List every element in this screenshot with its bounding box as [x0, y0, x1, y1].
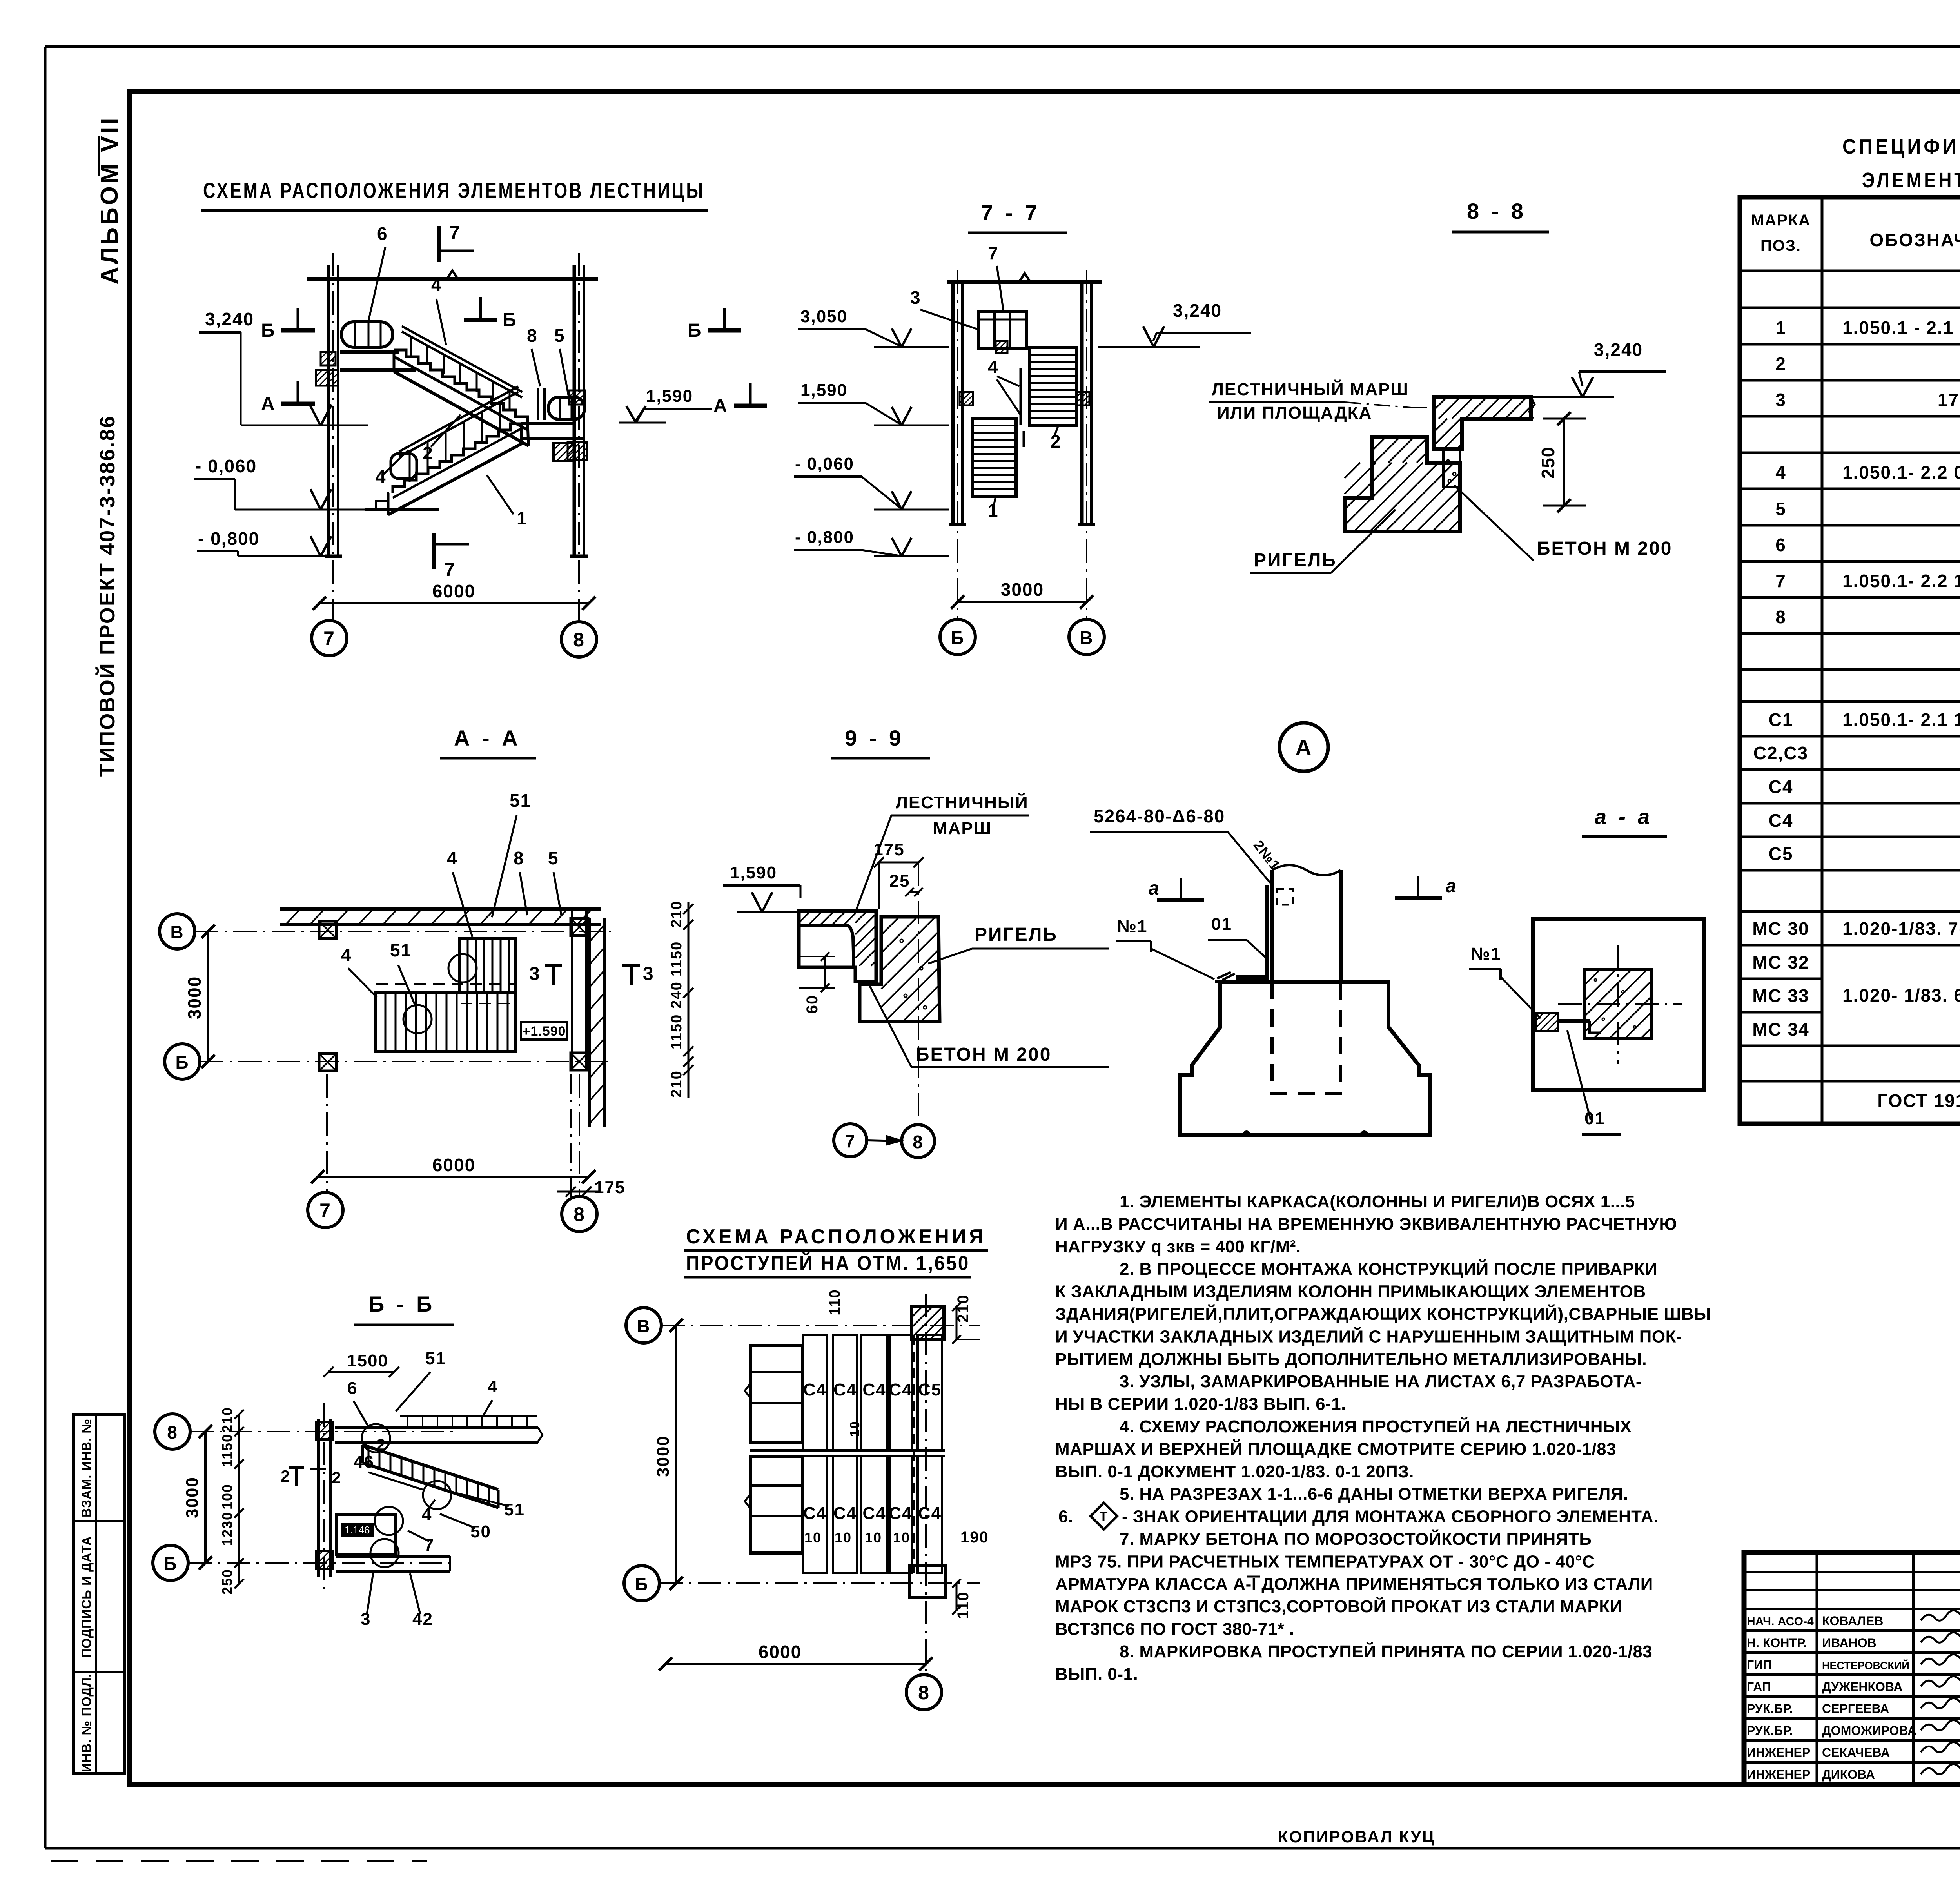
svg-text:250: 250: [219, 1569, 235, 1595]
svg-text:3: 3: [910, 287, 921, 308]
svg-text:МРЗ 75. ПРИ РАСЧЕТНЫХ ТЕМПЕР: МРЗ 75. ПРИ РАСЧЕТНЫХ ТЕМПЕРАТУРАХ ОТ - …: [1055, 1552, 1595, 1571]
svg-text:1.050.1- 2.1 18.0.00.0: 1.050.1- 2.1 18.0.00.0: [1842, 709, 1960, 730]
svg-text:9 - 9: 9 - 9: [845, 726, 904, 750]
svg-text:8: 8: [573, 629, 585, 651]
svg-text:МАРОК СТ3СП3 И СТ3ПС3,СОРТОВОЙ: МАРОК СТ3СП3 И СТ3ПС3,СОРТОВОЙ ПРОКАТ ИЗ…: [1055, 1596, 1622, 1616]
svg-text:ГАП: ГАП: [1747, 1680, 1771, 1694]
svg-text:СЕКАЧЕВА: СЕКАЧЕВА: [1822, 1746, 1890, 1760]
svg-text:РУК.БР.: РУК.БР.: [1747, 1724, 1793, 1738]
svg-text:01: 01: [1211, 915, 1232, 934]
svg-text:25: 25: [889, 871, 910, 891]
svg-text:2: 2: [1775, 354, 1786, 374]
svg-text:ВСТ3ПС6 ПО ГОСТ 380-71* .: ВСТ3ПС6 ПО ГОСТ 380-71* .: [1055, 1620, 1294, 1639]
svg-text:ПРОСТУПЕЙ НА ОТМ. 1,650: ПРОСТУПЕЙ НА ОТМ. 1,650: [686, 1252, 970, 1275]
svg-text:8: 8: [527, 325, 538, 346]
svg-text:3,240: 3,240: [205, 309, 254, 329]
svg-text:8: 8: [514, 848, 524, 868]
svg-text:а: а: [1446, 876, 1457, 896]
svg-text:250: 250: [1538, 446, 1558, 479]
svg-text:СЕРГЕЕВА: СЕРГЕЕВА: [1822, 1702, 1889, 1716]
svg-text:8: 8: [918, 1682, 930, 1704]
svg-text:4: 4: [488, 1377, 498, 1396]
svg-text:7: 7: [1775, 571, 1786, 591]
svg-text:3,240: 3,240: [1173, 300, 1222, 321]
svg-text:2: 2: [332, 1468, 341, 1487]
svg-text:10: 10: [804, 1530, 822, 1546]
svg-text:240: 240: [668, 981, 685, 1008]
svg-text:6: 6: [347, 1379, 358, 1398]
svg-text:МАРШ: МАРШ: [933, 819, 992, 838]
svg-text:1. ЭЛЕМЕНТЫ КАРКАСА(КОЛОННЫ И: 1. ЭЛЕМЕНТЫ КАРКАСА(КОЛОННЫ И РИГЕЛИ)В О…: [1120, 1192, 1635, 1211]
svg-text:8: 8: [167, 1422, 178, 1443]
svg-text:51: 51: [504, 1500, 525, 1519]
svg-text:7: 7: [323, 628, 335, 650]
svg-text:ПОДПИСЬ И ДАТА: ПОДПИСЬ И ДАТА: [79, 1536, 94, 1658]
svg-text:НЕСТЕРОВСКИЙ: НЕСТЕРОВСКИЙ: [1822, 1659, 1909, 1671]
svg-text:- 0,800: - 0,800: [198, 528, 260, 549]
svg-text:3: 3: [361, 1609, 371, 1629]
svg-text:5. НА РАЗРЕЗАХ 1-1...6-6 ДАНЫ: 5. НА РАЗРЕЗАХ 1-1...6-6 ДАНЫ ОТМЕТКИ ВЕ…: [1120, 1484, 1628, 1504]
svg-text:БЕТОН М 200: БЕТОН М 200: [1537, 538, 1672, 559]
svg-text:РУК.БР.: РУК.БР.: [1747, 1702, 1793, 1716]
svg-text:3,050: 3,050: [800, 307, 848, 326]
svg-text:РИГЕЛЬ: РИГЕЛЬ: [975, 924, 1058, 945]
svg-text:10: 10: [893, 1530, 910, 1546]
svg-text:В: В: [170, 922, 184, 942]
svg-text:1.146: 1.146: [344, 1524, 370, 1536]
svg-text:5264-80-Δ6-80: 5264-80-Δ6-80: [1094, 806, 1225, 826]
svg-text:Т: Т: [1100, 1510, 1109, 1524]
svg-text:10: 10: [865, 1530, 882, 1546]
svg-text:ОБОЗНАЧЕНИЕ: ОБОЗНАЧЕНИЕ: [1869, 230, 1960, 250]
svg-text:4: 4: [431, 274, 442, 295]
svg-text:С4: С4: [1769, 810, 1793, 831]
svg-text:МС 30: МС 30: [1752, 918, 1809, 939]
svg-text:№1: №1: [1471, 944, 1501, 964]
svg-text:И УЧАСТКИ ЗАКЛАДНЫХ ИЗДЕЛИЙ С: И УЧАСТКИ ЗАКЛАДНЫХ ИЗДЕЛИЙ С НАРУШЕННЫМ…: [1055, 1326, 1682, 1346]
svg-text:175: 175: [594, 1178, 625, 1197]
svg-text:РЫТИЕМ ДОЛЖНЫ БЫТЬ ДОПОЛНИТЕЛ: РЫТИЕМ ДОЛЖНЫ БЫТЬ ДОПОЛНИТЕЛЬНО МЕТАЛЛИ…: [1055, 1350, 1647, 1369]
svg-text:С4: С4: [833, 1380, 857, 1399]
svg-text:2: 2: [281, 1467, 290, 1485]
svg-text:51: 51: [425, 1349, 446, 1368]
svg-text:ЗДАНИЯ(РИГЕЛЕЙ,ПЛИТ,ОГРАЖДАЮЩИ: ЗДАНИЯ(РИГЕЛЕЙ,ПЛИТ,ОГРАЖДАЮЩИХ КОНСТРУК…: [1055, 1304, 1711, 1324]
svg-text:8: 8: [913, 1132, 924, 1152]
svg-text:№1: №1: [1117, 917, 1148, 936]
svg-text:ИНВ. № ПОДЛ.: ИНВ. № ПОДЛ.: [79, 1673, 94, 1772]
svg-text:1,590: 1,590: [730, 863, 777, 882]
svg-text:8 - 8: 8 - 8: [1467, 199, 1526, 223]
svg-text:1.020-1/83. 7-1 100: 1.020-1/83. 7-1 100: [1842, 918, 1960, 939]
svg-text:БЕТОН М 200: БЕТОН М 200: [916, 1044, 1051, 1065]
svg-text:3. УЗЛЫ, ЗАМАРКИРОВАННЫЕ НА ЛИ: 3. УЗЛЫ, ЗАМАРКИРОВАННЫЕ НА ЛИСТАХ 6,7 Р…: [1120, 1372, 1642, 1391]
svg-text:4: 4: [447, 848, 458, 868]
svg-text:РИГЕЛЬ: РИГЕЛЬ: [1254, 550, 1337, 571]
svg-text:7: 7: [449, 223, 461, 243]
svg-text:А: А: [713, 396, 728, 416]
svg-text:Б: Б: [175, 1052, 189, 1072]
svg-text:5: 5: [1775, 499, 1786, 519]
svg-text:МС 32: МС 32: [1752, 952, 1809, 973]
svg-text:5: 5: [548, 848, 559, 868]
svg-text:С5: С5: [1769, 844, 1793, 864]
svg-text:+1.590: +1.590: [523, 1024, 566, 1039]
svg-text:7 - 7: 7 - 7: [981, 200, 1040, 225]
svg-text:7: 7: [319, 1199, 331, 1221]
svg-text:КОПИРОВАЛ КУЦ: КОПИРОВАЛ КУЦ: [1278, 1827, 1436, 1846]
svg-text:С4: С4: [918, 1504, 942, 1523]
svg-text:210: 210: [668, 1070, 685, 1097]
svg-text:С4: С4: [862, 1380, 886, 1399]
svg-text:1.020- 1/83. 6-1 084: 1.020- 1/83. 6-1 084: [1842, 985, 1960, 1005]
svg-text:МАРШАХ И ВЕРХНЕЙ ПЛОЩАДКЕ СМОТ: МАРШАХ И ВЕРХНЕЙ ПЛОЩАДКЕ СМОТРИТЕ СЕРИЮ…: [1055, 1439, 1616, 1459]
svg-text:С4: С4: [803, 1504, 827, 1523]
svg-text:Б: Б: [688, 320, 702, 341]
svg-text:С4: С4: [1769, 777, 1793, 797]
svg-text:100: 100: [219, 1484, 235, 1510]
svg-text:ИНЖЕНЕР: ИНЖЕНЕР: [1747, 1767, 1810, 1782]
svg-text:1150: 1150: [668, 941, 685, 976]
svg-text:- 0,800: - 0,800: [795, 528, 854, 547]
svg-text:50: 50: [470, 1522, 491, 1541]
svg-text:НАГРУЗКУ q зкв = 400 КГ/М².: НАГРУЗКУ q зкв = 400 КГ/М².: [1055, 1237, 1301, 1256]
svg-text:КОВАЛЕВ: КОВАЛЕВ: [1822, 1614, 1883, 1628]
svg-text:А: А: [261, 394, 276, 414]
svg-text:Б: Б: [503, 310, 517, 330]
svg-text:И А...В РАССЧИТАНЫ НА ВРЕМЕННУ: И А...В РАССЧИТАНЫ НА ВРЕМЕННУЮ ЭКВИВАЛЕ…: [1055, 1214, 1677, 1234]
svg-text:175: 175: [873, 840, 904, 859]
svg-text:АЛЬБОМ VII: АЛЬБОМ VII: [96, 115, 123, 284]
svg-text:С4: С4: [889, 1504, 912, 1523]
svg-text:С5: С5: [918, 1380, 942, 1399]
svg-text:3000: 3000: [184, 976, 205, 1019]
svg-text:4: 4: [422, 1505, 432, 1524]
svg-text:ПОЗ.: ПОЗ.: [1760, 237, 1801, 254]
svg-text:СХЕМА РАСПОЛОЖЕНИЯ ЭЛЕМЕНТОВ: СХЕМА РАСПОЛОЖЕНИЯ ЭЛЕМЕНТОВ ЛЕСТНИЦЫ: [203, 178, 705, 203]
svg-text:ДИКОВА: ДИКОВА: [1822, 1767, 1875, 1782]
svg-text:В: В: [1080, 628, 1093, 648]
svg-text:4. СХЕМУ РАСПОЛОЖЕНИЯ ПРОСТУПЕ: 4. СХЕМУ РАСПОЛОЖЕНИЯ ПРОСТУПЕЙ НА ЛЕСТН…: [1120, 1416, 1632, 1436]
svg-text:1230: 1230: [219, 1512, 235, 1546]
svg-text:Б: Б: [261, 320, 276, 341]
svg-text:6000: 6000: [432, 1155, 475, 1175]
svg-text:ТИПОВОЙ ПРОЕКТ 407-3-386.86: ТИПОВОЙ ПРОЕКТ 407-3-386.86: [95, 415, 119, 777]
svg-text:17. 0.00.0-02: 17. 0.00.0-02: [1938, 390, 1960, 410]
svg-text:4: 4: [376, 466, 387, 487]
svg-text:С4: С4: [833, 1504, 857, 1523]
svg-text:3000: 3000: [1001, 579, 1044, 600]
svg-text:3: 3: [643, 964, 654, 984]
svg-text:7: 7: [424, 1535, 434, 1555]
svg-text:6000: 6000: [759, 1642, 802, 1662]
svg-text:- 0,060: - 0,060: [795, 454, 854, 474]
svg-text:5: 5: [554, 325, 565, 346]
svg-text:4: 4: [341, 945, 352, 965]
svg-text:6: 6: [377, 223, 388, 244]
svg-text:МС 33: МС 33: [1752, 985, 1809, 1006]
svg-text:42: 42: [412, 1609, 433, 1629]
svg-text:ВЗАМ. ИНВ. №: ВЗАМ. ИНВ. №: [79, 1419, 94, 1517]
svg-text:а - а: а - а: [1595, 805, 1653, 829]
svg-text:51: 51: [390, 940, 412, 960]
svg-text:ИВАНОВ: ИВАНОВ: [1822, 1636, 1877, 1650]
svg-text:Б - Б: Б - Б: [368, 1292, 435, 1316]
svg-text:АРМАТУРА КЛАССА А-I ДОЛЖНА ПРИ: АРМАТУРА КЛАССА А-I ДОЛЖНА ПРИМЕНЯТЬСЯ Т…: [1055, 1575, 1653, 1594]
svg-text:110: 110: [827, 1289, 843, 1315]
svg-text:ВЫП. 0-1 ДОКУМЕНТ 1.020-1/83: ВЫП. 0-1 ДОКУМЕНТ 1.020-1/83. 0-1 20ПЗ.: [1055, 1462, 1414, 1481]
svg-text:210: 210: [668, 900, 685, 927]
svg-text:ДОМОЖИРОВА: ДОМОЖИРОВА: [1822, 1724, 1916, 1738]
svg-text:8: 8: [573, 1203, 585, 1225]
svg-text:С4: С4: [862, 1504, 886, 1523]
svg-text:1.050.1 - 2.1 13.0.00.0: 1.050.1 - 2.1 13.0.00.0: [1842, 318, 1960, 338]
svg-text:10: 10: [835, 1530, 852, 1546]
svg-text:ИЛИ ПЛОЩАДКА: ИЛИ ПЛОЩАДКА: [1217, 403, 1372, 423]
svg-text:3000: 3000: [183, 1477, 202, 1518]
svg-text:190: 190: [960, 1529, 989, 1546]
svg-text:8: 8: [1775, 607, 1786, 627]
svg-text:60: 60: [804, 995, 821, 1014]
svg-text:К ЗАКЛАДНЫМ ИЗДЕЛИЯМ КОЛОНН ПР: К ЗАКЛАДНЫМ ИЗДЕЛИЯМ КОЛОНН ПРИМЫКАЮЩИХ …: [1055, 1282, 1646, 1301]
svg-text:ЭЛЕМЕНТОВ ЛЕСТНИЦЫ И ОГРАЖД: ЭЛЕМЕНТОВ ЛЕСТНИЦЫ И ОГРАЖДЕНИЯ: [1862, 169, 1960, 192]
svg-text:1,590: 1,590: [646, 386, 693, 406]
svg-text:ВЫП. 0-1.: ВЫП. 0-1.: [1055, 1664, 1138, 1684]
svg-text:- ЗНАК ОРИЕНТАЦИИ ДЛЯ МОНТАЖА: - ЗНАК ОРИЕНТАЦИИ ДЛЯ МОНТАЖА СБОРНОГО Э…: [1122, 1507, 1659, 1526]
svg-text:А - А: А - А: [454, 726, 521, 750]
svg-text:3,240: 3,240: [1594, 339, 1643, 360]
svg-text:46: 46: [354, 1452, 374, 1472]
svg-text:6000: 6000: [432, 581, 475, 601]
svg-text:А: А: [1296, 735, 1312, 760]
svg-text:Н. КОНТР.: Н. КОНТР.: [1747, 1636, 1807, 1650]
svg-text:Б: Б: [163, 1553, 177, 1574]
svg-text:4: 4: [988, 357, 999, 377]
svg-text:СХЕМА РАСПОЛОЖЕНИЯ: СХЕМА РАСПОЛОЖЕНИЯ: [686, 1225, 986, 1248]
svg-text:7: 7: [845, 1131, 856, 1151]
svg-text:ИНЖЕНЕР: ИНЖЕНЕР: [1747, 1746, 1810, 1760]
svg-text:210: 210: [219, 1407, 235, 1433]
svg-text:2: 2: [376, 1435, 386, 1454]
svg-text:ГОСТ 19111-77: ГОСТ 19111-77: [1877, 1091, 1960, 1111]
svg-text:1.050.1- 2.2 14.0: 1.050.1- 2.2 14.0: [1842, 571, 1960, 591]
svg-text:ЛЕСТНИЧНЫЙ МАРШ: ЛЕСТНИЧНЫЙ МАРШ: [1212, 379, 1409, 399]
svg-text:НЫ В СЕРИИ 1.020-1/83 ВЫП. 6: НЫ В СЕРИИ 1.020-1/83 ВЫП. 6-1.: [1055, 1395, 1346, 1414]
svg-text:2. В ПРОЦЕССЕ МОНТАЖА КОНСТРУК: 2. В ПРОЦЕССЕ МОНТАЖА КОНСТРУКЦИЙ ПОСЛЕ …: [1120, 1259, 1657, 1279]
svg-text:а: а: [1149, 878, 1160, 899]
svg-text:6.: 6.: [1058, 1507, 1073, 1526]
svg-text:Б: Б: [951, 628, 964, 648]
svg-text:- 0,060: - 0,060: [195, 456, 257, 476]
svg-text:С2,С3: С2,С3: [1753, 743, 1808, 763]
svg-text:7: 7: [444, 560, 456, 581]
svg-text:ГИП: ГИП: [1747, 1658, 1772, 1672]
svg-text:3000: 3000: [653, 1435, 673, 1477]
svg-text:С4: С4: [803, 1380, 827, 1399]
svg-text:7: 7: [988, 243, 999, 263]
svg-text:8. МАРКИРОВКА ПРОСТУПЕЙ ПРИНЯТ: 8. МАРКИРОВКА ПРОСТУПЕЙ ПРИНЯТА ПО СЕРИИ…: [1120, 1641, 1652, 1661]
svg-text:ДУЖЕНКОВА: ДУЖЕНКОВА: [1822, 1680, 1903, 1694]
svg-text:10: 10: [848, 1421, 862, 1437]
svg-text:НАЧ. АСО-4: НАЧ. АСО-4: [1747, 1615, 1814, 1628]
svg-text:1150: 1150: [668, 1014, 685, 1049]
svg-text:1: 1: [1775, 318, 1786, 338]
svg-text:МС 34: МС 34: [1752, 1019, 1809, 1040]
svg-text:1500: 1500: [347, 1351, 388, 1370]
svg-text:СПЕЦИФИКАЦИЯ К СХЕМЕ РАСП: СПЕЦИФИКАЦИЯ К СХЕМЕ РАСПОЛОЖЕНИЯ: [1842, 135, 1960, 158]
svg-text:3: 3: [1775, 390, 1786, 410]
svg-text:1,590: 1,590: [800, 381, 848, 400]
svg-text:3: 3: [529, 964, 541, 984]
svg-text:МАРКА: МАРКА: [1751, 212, 1811, 229]
svg-text:1: 1: [517, 508, 528, 528]
svg-text:В: В: [637, 1316, 650, 1336]
svg-text:1.050.1- 2.2 02.0: 1.050.1- 2.2 02.0: [1842, 462, 1960, 483]
svg-text:7. МАРКУ БЕТОНА ПО МОРОЗОСТОЙ: 7. МАРКУ БЕТОНА ПО МОРОЗОСТОЙКОСТИ ПРИНЯ…: [1120, 1529, 1592, 1549]
svg-text:С1: С1: [1769, 709, 1793, 730]
svg-text:6: 6: [1775, 535, 1786, 555]
svg-text:51: 51: [510, 790, 531, 811]
svg-text:ЛЕСТНИЧНЫЙ: ЛЕСТНИЧНЫЙ: [896, 792, 1029, 812]
svg-text:4: 4: [1775, 462, 1786, 483]
svg-text:1150: 1150: [219, 1433, 235, 1467]
svg-text:С4: С4: [889, 1380, 912, 1399]
svg-text:Б: Б: [635, 1574, 648, 1594]
